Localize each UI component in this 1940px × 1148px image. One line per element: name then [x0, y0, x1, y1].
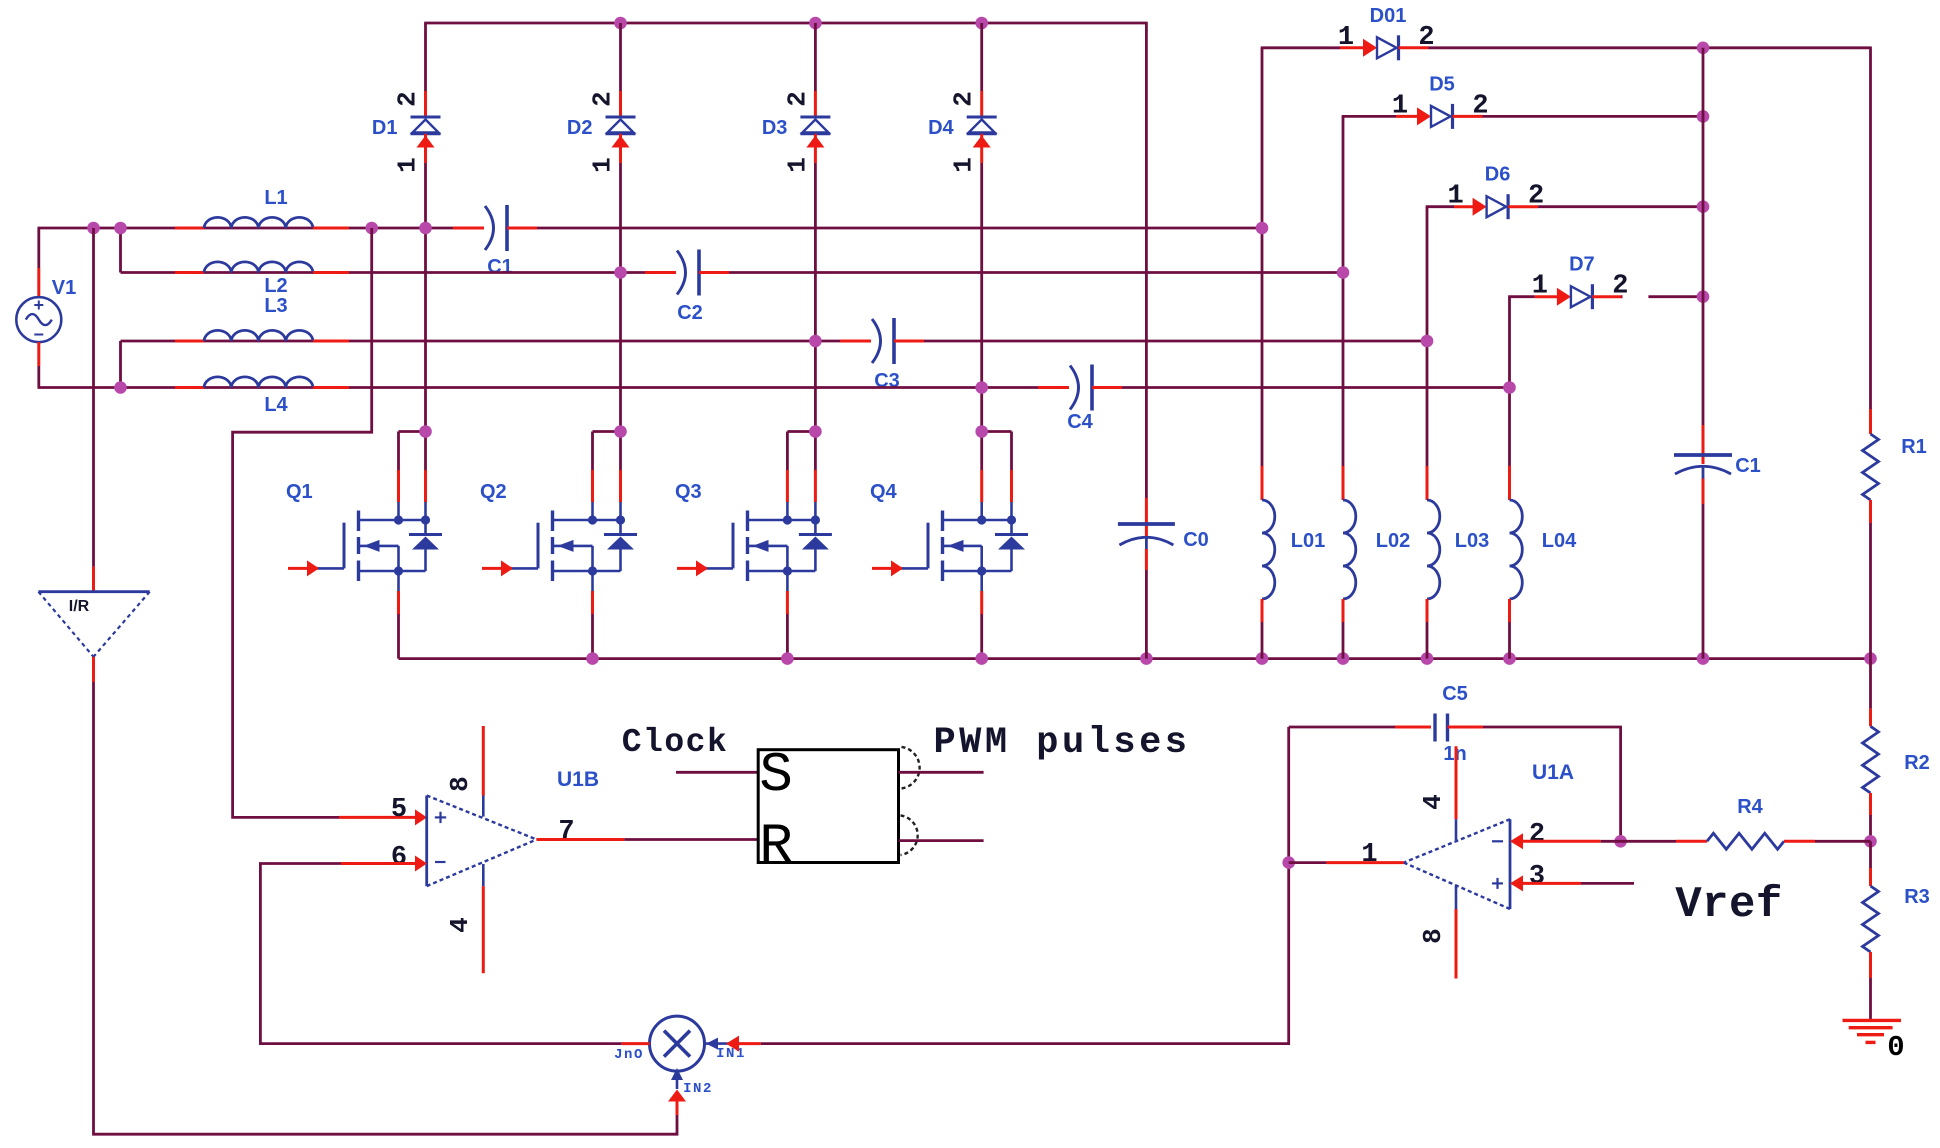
svg-text:1: 1: [1532, 272, 1548, 302]
svg-text:C2: C2: [677, 302, 703, 324]
node D5 out: [1697, 110, 1710, 123]
svg-text:0: 0: [1887, 1031, 1904, 1064]
diode D1: [372, 23, 441, 432]
svg-text:D3: D3: [762, 117, 788, 139]
node bus/C1 out: [1697, 652, 1710, 665]
svg-text:Q3: Q3: [675, 481, 702, 503]
wire bottom bus: [399, 657, 1871, 660]
inductor L2: [175, 262, 349, 297]
diode D5: [1342, 73, 1703, 128]
svg-text:R: R: [759, 814, 793, 878]
node bus/R1-R2: [1864, 652, 1877, 665]
node bus/L01: [1256, 652, 1269, 665]
wire multiplier IN1 to feedback node: [726, 727, 1289, 1052]
diode D2: [567, 23, 636, 432]
svg-text:2: 2: [1529, 820, 1545, 850]
svg-text:R1: R1: [1901, 436, 1927, 458]
svg-text:L4: L4: [264, 394, 288, 416]
svg-text:7: 7: [558, 817, 574, 847]
node row3/D3: [809, 335, 822, 348]
svg-text:R4: R4: [1737, 796, 1763, 818]
node bus/L03: [1421, 652, 1434, 665]
svg-text:6: 6: [391, 843, 407, 873]
node Q2 drain/D2: [614, 425, 627, 438]
resistor R1: [1863, 409, 1927, 659]
diode D01: [1261, 5, 1871, 61]
svg-text:C5: C5: [1442, 683, 1468, 705]
wire Q-drain sense to U1B pin 5: [233, 228, 427, 825]
node top bus / D2: [614, 17, 627, 30]
wire row1 to I/R: [92, 228, 95, 592]
svg-text:D7: D7: [1569, 254, 1595, 276]
node L03/row3: [1421, 335, 1434, 348]
svg-text:U1B: U1B: [557, 768, 599, 791]
svg-text:JnO: JnO: [614, 1047, 644, 1063]
op-amp U1A: [1361, 746, 1574, 978]
svg-text:L02: L02: [1376, 530, 1410, 552]
wire U1B pin6 input: [260, 856, 621, 1044]
node C5/R4/pin2: [1614, 835, 1627, 848]
svg-text:1: 1: [1338, 23, 1354, 53]
svg-text:D6: D6: [1485, 164, 1511, 186]
node bus/Q3: [781, 652, 794, 665]
svg-text:L3: L3: [264, 295, 287, 317]
wire PWM output bottom: [899, 839, 984, 842]
svg-text:2: 2: [782, 91, 812, 107]
svg-text:Q2: Q2: [480, 481, 507, 503]
node bus/Q4: [975, 652, 988, 665]
svg-text:1: 1: [782, 157, 812, 173]
wire diode-output vertical: [1702, 48, 1705, 425]
transistor Q1: [286, 432, 442, 659]
wire row2 + capacitor C2: [121, 228, 1344, 324]
svg-text:L2: L2: [264, 275, 287, 297]
svg-text:PWM pulses: PWM pulses: [933, 722, 1190, 764]
svg-text:2: 2: [588, 91, 618, 107]
inductor L3: [175, 295, 349, 341]
node L02/row2: [1337, 266, 1350, 279]
node top bus / D4: [975, 17, 988, 30]
inductor L02: [1343, 116, 1410, 658]
svg-text:L01: L01: [1291, 530, 1325, 552]
node R2/R3/R4: [1864, 835, 1877, 848]
node D7 out: [1697, 290, 1710, 303]
wire row1 left segment + capacitor C1: [38, 205, 1263, 278]
label PWM pulses: [933, 722, 1190, 764]
svg-text:IN2: IN2: [683, 1081, 713, 1097]
svg-text:IN1: IN1: [716, 1046, 746, 1062]
svg-text:Vref: Vref: [1675, 880, 1783, 930]
svg-text:D4: D4: [928, 117, 954, 139]
multiplier: [614, 1016, 746, 1097]
node row4/L3 branch: [114, 381, 127, 394]
wire U1A pin3 Vref: [1510, 875, 1634, 891]
voltage source V1: [16, 277, 76, 342]
svg-text:1: 1: [1392, 91, 1408, 121]
diode D3: [762, 23, 831, 432]
diode D4: [928, 23, 997, 432]
latch output bubble top: [902, 747, 920, 789]
svg-text:4: 4: [445, 917, 475, 933]
svg-text:2: 2: [1472, 91, 1488, 121]
svg-text:2: 2: [393, 91, 423, 107]
node Q1 drain/D1: [419, 425, 432, 438]
wire top bus (D1-D4 cathodes to C0): [424, 22, 1146, 25]
svg-text:S: S: [759, 743, 793, 807]
op-amp U1B: [391, 726, 599, 973]
transistor Q4: [870, 432, 1028, 659]
transistor Q3: [675, 432, 832, 659]
svg-text:3: 3: [1529, 862, 1545, 892]
svg-text:C1: C1: [487, 256, 513, 278]
svg-text:L03: L03: [1455, 530, 1489, 552]
svg-text:1: 1: [1361, 840, 1377, 870]
node bus/C0: [1140, 652, 1153, 665]
wire Clock stub: [676, 771, 758, 774]
amplifier I/R: [38, 592, 149, 657]
wire I/R output to multiplier IN2: [94, 657, 687, 1134]
wire far-right vertical (D01 row to R1): [1869, 47, 1872, 410]
wire V1 bottom lead: [37, 342, 40, 387]
resistor R4: [1676, 796, 1871, 849]
svg-text:U1A: U1A: [1532, 761, 1574, 784]
node top bus / D3: [809, 17, 822, 30]
inductor L1: [175, 187, 349, 228]
svg-text:2: 2: [1612, 272, 1628, 302]
node L04/row4: [1503, 381, 1516, 394]
svg-text:C4: C4: [1067, 411, 1093, 433]
svg-text:Q4: Q4: [870, 481, 898, 503]
wire U1A pin2 row: [1510, 833, 1676, 849]
inductor L4: [175, 377, 349, 416]
wire multiplier OUT red: [622, 1042, 650, 1045]
capacitor C5: [1289, 683, 1621, 841]
inductor L04: [1510, 297, 1578, 659]
node bus/L02: [1337, 652, 1350, 665]
node Q3 drain/D3: [809, 425, 822, 438]
svg-text:2: 2: [949, 91, 979, 107]
node row1/Q1 sense tap: [365, 222, 378, 235]
svg-text:R2: R2: [1904, 752, 1930, 774]
resistor R2: [1863, 659, 1930, 842]
svg-text:D2: D2: [567, 117, 593, 139]
wire U1B output to R: [537, 838, 759, 841]
svg-text:Q1: Q1: [286, 481, 313, 503]
node row1/D1: [419, 222, 432, 235]
inductor L03: [1427, 207, 1489, 659]
svg-text:D01: D01: [1370, 5, 1407, 27]
wire V1 top lead: [37, 228, 40, 297]
svg-text:8: 8: [445, 776, 475, 792]
svg-text:C0: C0: [1183, 529, 1209, 551]
svg-text:5: 5: [391, 795, 407, 825]
node U1A output / feedback: [1282, 856, 1295, 869]
svg-text:R3: R3: [1904, 886, 1930, 908]
node Q4 drain/D4: [975, 425, 988, 438]
wire U1A output: [1289, 861, 1404, 864]
node row4/D4: [975, 381, 988, 394]
node D01 out / C1 branch: [1697, 42, 1710, 55]
svg-text:C1: C1: [1735, 455, 1761, 477]
svg-text:V1: V1: [52, 277, 76, 299]
latch output bubble bottom: [901, 815, 918, 855]
capacitor C1 (output): [1674, 425, 1761, 659]
node L01/row1: [1256, 222, 1269, 235]
node bus/Q2: [586, 652, 599, 665]
label Clock: [622, 724, 729, 761]
svg-text:1: 1: [588, 157, 618, 173]
label Vref: [1675, 880, 1783, 930]
svg-text:4: 4: [1418, 794, 1448, 810]
resistor R3: [1863, 841, 1930, 1019]
node D6 out: [1697, 200, 1710, 213]
wire row3 + capacitor C3: [121, 318, 1428, 392]
svg-text:1: 1: [1447, 182, 1463, 212]
svg-text:8: 8: [1418, 928, 1448, 944]
capacitor C0: [1118, 498, 1209, 659]
svg-text:1: 1: [949, 157, 979, 173]
svg-text:L1: L1: [264, 187, 287, 209]
svg-text:I/R: I/R: [69, 598, 90, 615]
wire PWM output top: [899, 771, 984, 774]
svg-text:Clock: Clock: [622, 724, 729, 761]
svg-text:L04: L04: [1542, 530, 1577, 552]
diode D7: [1508, 254, 1703, 310]
wire row4 + capacitor C4: [38, 365, 1510, 434]
inductor L01: [1262, 48, 1325, 659]
svg-text:1: 1: [393, 157, 423, 173]
node row1/L2 branch: [114, 222, 127, 235]
svg-text:2: 2: [1418, 23, 1434, 53]
svg-text:2: 2: [1528, 182, 1544, 212]
wire C0 branch vertical: [1145, 22, 1148, 498]
svg-text:D1: D1: [372, 117, 398, 139]
node row1/I-R sense: [87, 222, 100, 235]
node bus/L04: [1503, 652, 1516, 665]
transistor Q2: [480, 432, 637, 659]
svg-text:D5: D5: [1429, 73, 1455, 95]
latch S-R block: [758, 743, 898, 878]
node row2/D2: [614, 266, 627, 279]
diode D6: [1426, 164, 1703, 220]
ground 0: [1843, 1020, 1905, 1064]
